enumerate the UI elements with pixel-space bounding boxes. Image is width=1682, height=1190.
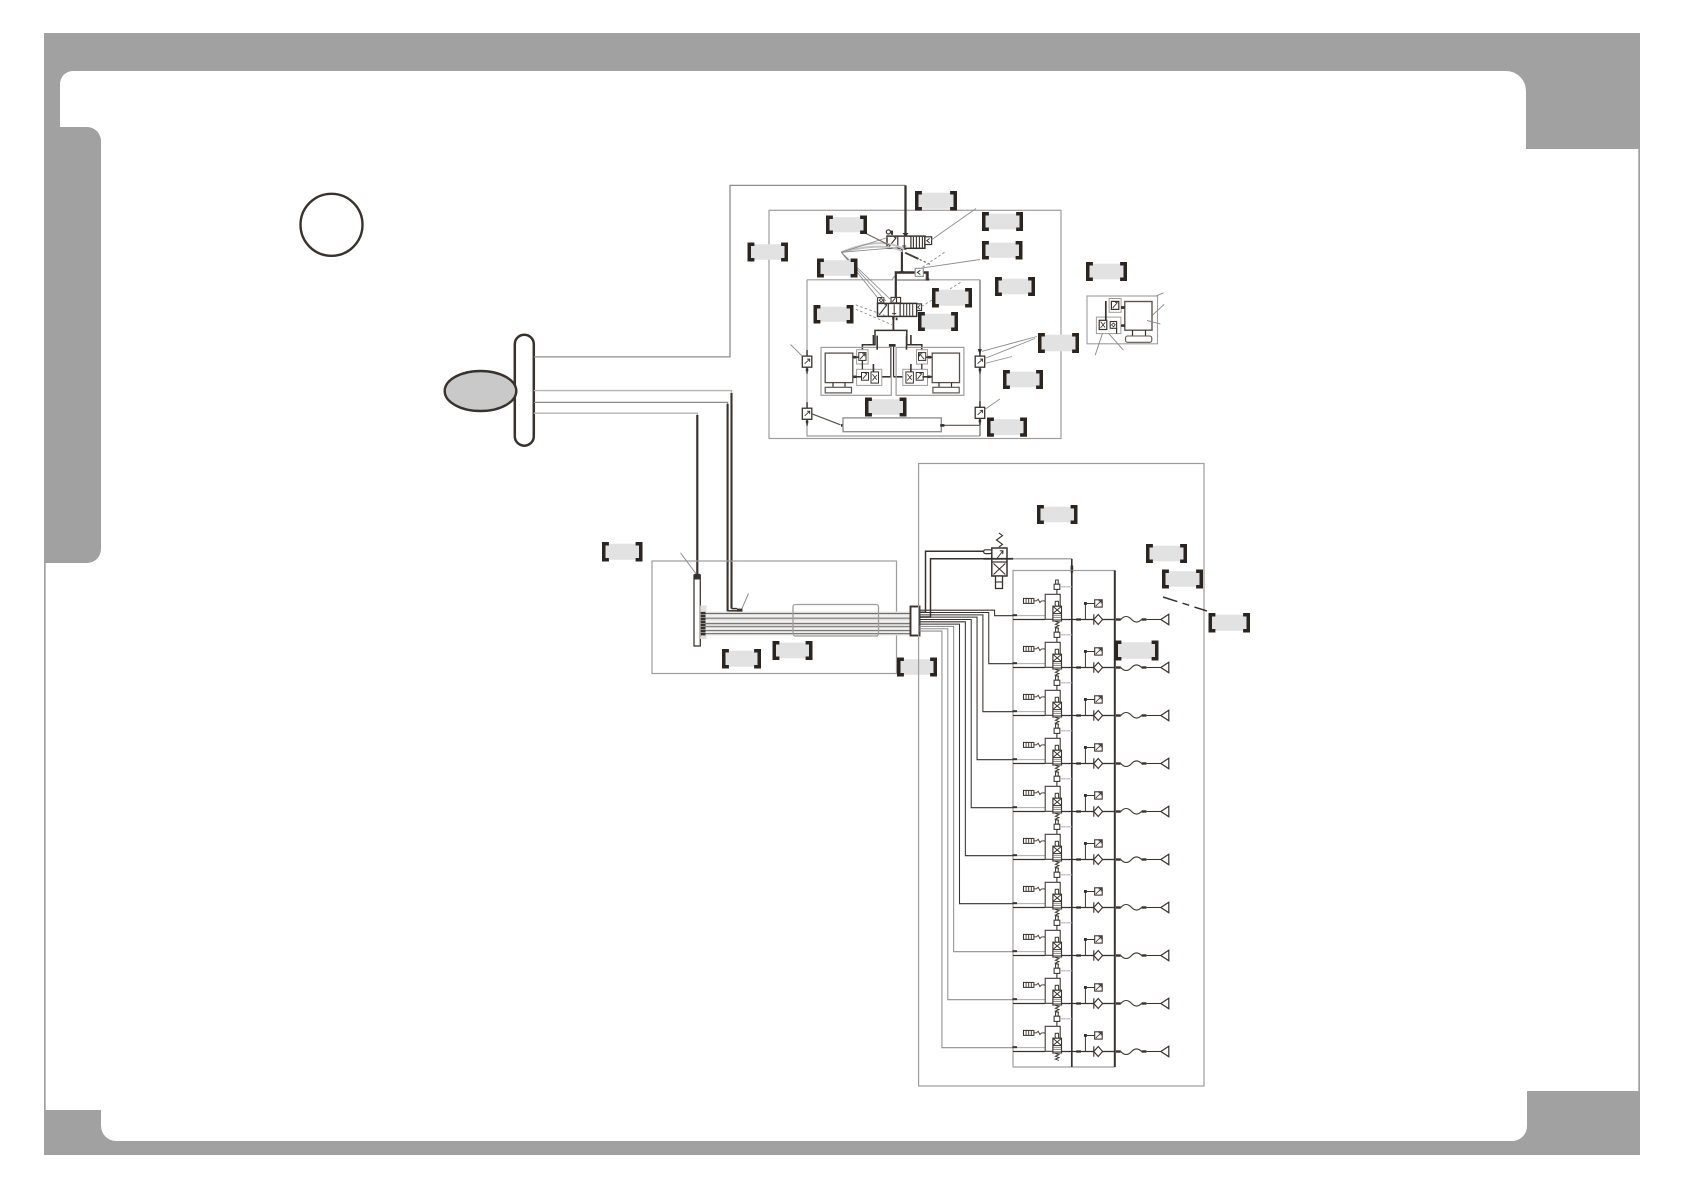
label: boom cylinders: [867, 399, 906, 415]
valve row 5 solenoid: [1024, 790, 1046, 795]
label: shuttle valve: [934, 290, 971, 306]
dashed leader to label: [1163, 597, 1207, 611]
valve row 5 unit frame: [1045, 786, 1060, 811]
valve row 4 unit frame: [1045, 738, 1060, 763]
left cylinder: [825, 353, 853, 383]
valve row 7 body neck: [1055, 889, 1058, 894]
valve row 5 out line 2: [1103, 811, 1115, 813]
valve row 8 entry lines: [1017, 951, 1045, 953]
valve row 9 solenoid: [1024, 982, 1046, 987]
valve row 7 check valve: [1093, 902, 1095, 912]
valve row 3 check valve: [1093, 710, 1095, 720]
valve row 2 body neck: [1055, 649, 1058, 654]
valve bank outer box: [919, 464, 1204, 1087]
valve row 10 body neck: [1055, 1033, 1058, 1038]
valve row 5 nozzle: [1161, 806, 1169, 817]
valve row 3 unit frame: [1045, 690, 1060, 715]
valve row 1 main body: [1053, 606, 1062, 621]
main control inner box: [807, 280, 980, 436]
valve row 7 nozzle: [1161, 902, 1169, 913]
valve row 8 unit frame: [1045, 930, 1060, 955]
valve row 5 pilot valve: [1056, 772, 1059, 776]
valve row 10 main body: [1053, 1038, 1062, 1053]
valve row 5 hose: [1121, 809, 1142, 815]
valve row 8 wire: [920, 626, 1014, 951]
valve row 6 unit frame: [1045, 834, 1060, 859]
page frame left border line: [44, 563, 46, 1110]
valve row 3 entry lines: [1017, 711, 1045, 713]
right cyl-check line: [926, 356, 933, 358]
valve row 5 spring: [1055, 813, 1059, 820]
valve row 9 wire: [920, 629, 1014, 1000]
pilot line 2: [534, 391, 732, 609]
valve row 1 solenoid: [1024, 598, 1046, 603]
manifold pressure bus: [1071, 571, 1073, 1068]
valve row 9 out line: [1062, 1003, 1094, 1005]
valve row 4 wire: [920, 617, 1014, 760]
valve row 6 out line 2: [1103, 859, 1115, 861]
label: manifold: [1039, 507, 1077, 523]
label: relief valve: [917, 193, 956, 209]
page frame left tab block: [44, 127, 101, 563]
valve row 6 out line: [1062, 859, 1094, 861]
valve row 4 orifice box: [1095, 744, 1103, 751]
valve row 5 wire: [920, 619, 1014, 807]
valve row 6 nozzle: [1161, 854, 1169, 865]
right valve link lines: [921, 364, 923, 369]
sub counterbalance box: [1096, 317, 1121, 334]
connector body: [694, 575, 700, 646]
valve row 5 entry tick: [1012, 806, 1017, 808]
valve row 10 entry lines: [1017, 1047, 1045, 1049]
valve row 9 check valve: [1093, 998, 1095, 1008]
port box left upper: [802, 350, 812, 374]
label: drain: [1005, 372, 1042, 388]
PV2 bottom ticks: [892, 316, 894, 319]
valve row 1 spring: [1055, 621, 1059, 628]
supply line valve to bus: [1013, 558, 1072, 560]
label: check valve: [997, 279, 1034, 295]
valve row 1 entry lines: [1017, 615, 1045, 617]
valve row 9 pilot valve: [1056, 964, 1059, 968]
left cylinder assembly box: [821, 347, 891, 395]
valve row 9 main body: [1053, 990, 1062, 1005]
callout PV1 up-right: [932, 209, 976, 240]
PV2 pilot boxes B C: [891, 297, 897, 303]
PV1 top port tick: [903, 233, 908, 236]
label: spray bar: [1210, 615, 1249, 631]
tank line left: [812, 414, 841, 425]
valve row 8 spring: [1055, 957, 1059, 964]
valve row 10 nozzle: [1161, 1046, 1169, 1057]
valve row 5 orifice box: [1095, 792, 1103, 799]
valve row 8 entry tick: [1012, 950, 1017, 952]
valve row 3 solenoid: [1024, 694, 1046, 699]
PV2 end box with check: [917, 304, 922, 311]
valve row 7 main body: [1053, 894, 1062, 909]
valve row 6 pilot junction: [1084, 844, 1086, 860]
left top feed lines: [872, 335, 874, 345]
right check valve box: [917, 350, 928, 364]
valve row 8 body neck: [1055, 937, 1058, 942]
valve row 1 unit frame: [1045, 594, 1060, 619]
valve row 1 wire: [920, 610, 1014, 616]
label: harness: [774, 643, 811, 659]
valve row 4 body neck: [1055, 745, 1058, 750]
valve row 4 hose: [1121, 761, 1142, 767]
connector pin shade band: [700, 606, 706, 640]
valve row 9 pilot junction: [1084, 988, 1086, 1004]
valve row 3 pilot valve: [1056, 676, 1059, 680]
Y split right branch: [893, 330, 921, 349]
label: harness clip: [724, 651, 760, 667]
PV1 end box with check: [925, 237, 932, 245]
manifold inner box: [1013, 571, 1115, 1068]
valve row 4 check valve: [1093, 758, 1095, 768]
valve row 7 entry tick: [1012, 902, 1017, 904]
right cylinder assembly box: [896, 347, 964, 395]
valve row 1 nozzle: [1161, 614, 1169, 625]
valve row 10 unit frame: [1045, 1026, 1060, 1051]
valve row 10 solenoid: [1024, 1030, 1046, 1035]
ribbon cable band: [706, 612, 911, 636]
valve row 4 nozzle: [1161, 758, 1169, 769]
valve row 8 hose: [1121, 953, 1142, 959]
valve row 10 spring: [1055, 1053, 1059, 1060]
valve row 5 out line: [1062, 811, 1094, 813]
valve row 2 pilot junction: [1084, 652, 1086, 668]
label: spool: [815, 307, 852, 322]
valve row 2 check valve: [1093, 662, 1095, 672]
valve row 9 body neck: [1055, 985, 1058, 990]
valve row 2 pilot valve: [1056, 628, 1059, 632]
valve row 7 out line 2: [1103, 907, 1115, 909]
callout fan lines: [841, 238, 887, 253]
valve row 2 entry lines: [1017, 663, 1045, 665]
valve row 9 hose: [1121, 1001, 1142, 1007]
line PV1 to block: [901, 248, 903, 272]
callout to ribbon tap: [742, 594, 749, 610]
valve row 7 entry lines: [1017, 903, 1045, 905]
valve row 4 pilot valve: [1056, 724, 1059, 728]
pilot line 4 (to connector): [534, 413, 698, 574]
left cyl-check line: [853, 356, 859, 358]
page frame top bar: [44, 33, 1640, 149]
valve row 9 unit frame: [1045, 978, 1060, 1003]
valve row 7 pilot valve: [1056, 868, 1059, 872]
valve row 8 out line 2: [1103, 955, 1115, 957]
valve row 10 check valve: [1093, 1046, 1095, 1056]
inner box top edge with hop: [807, 276, 980, 280]
valve row 5 check valve: [1093, 806, 1095, 816]
connection block body: [896, 273, 926, 280]
valve row 2 nozzle: [1161, 662, 1169, 673]
valve row 4 spring: [1055, 765, 1059, 772]
left valve link lines: [861, 360, 863, 369]
valve row 7 hose: [1121, 905, 1142, 911]
valve row 2 spring: [1055, 669, 1059, 676]
sub cylinder legs: [1132, 330, 1134, 336]
valve row 10 orifice box: [1095, 1032, 1103, 1039]
valve row 6 pilot valve: [1056, 820, 1059, 824]
valve row 8 nozzle: [1161, 950, 1169, 961]
label: pilot valve B: [819, 260, 857, 276]
supply line into main valve: [904, 185, 906, 236]
valve row 5 pilot junction: [1084, 796, 1086, 812]
valve row 6 solenoid: [1024, 838, 1046, 843]
valve row 10 hose: [1121, 1049, 1142, 1055]
PV2 pilot box A: [878, 298, 884, 303]
callout LB2 to PV1: [866, 234, 890, 246]
label: option kit: [1088, 264, 1126, 280]
valve row 3 wire: [920, 615, 1014, 712]
valve row 5 body neck: [1055, 793, 1058, 798]
valve row 1 orifice box: [1095, 600, 1103, 607]
reducing valve wires: [920, 551, 984, 612]
center pair lines down: [890, 346, 892, 377]
callout gray to check box: [922, 252, 945, 268]
valve row 6 entry tick: [1012, 854, 1017, 856]
sub cylinder: [1125, 302, 1152, 331]
valve row 2 unit frame: [1045, 642, 1060, 667]
tank: [843, 418, 941, 432]
port box right lower: [975, 401, 985, 425]
left cylinder base: [825, 387, 851, 393]
valve row 7 pilot junction: [1084, 892, 1086, 908]
valve row 10 entry tick: [1012, 1046, 1017, 1048]
valve row 10 out line 2: [1103, 1051, 1115, 1053]
valve row 1 entry tick: [1012, 614, 1017, 616]
valve row 3 orifice box: [1095, 696, 1103, 703]
ribbon wrap rounded box: [793, 605, 879, 637]
label: pilot valve A: [828, 217, 866, 232]
valve row 9 spring: [1055, 1005, 1059, 1012]
valve row 10 wire: [920, 631, 1014, 1048]
page frame bottom-right block: [1527, 1091, 1640, 1155]
valve row 6 spring: [1055, 861, 1059, 868]
left counterbalance box: [857, 369, 882, 385]
label: solenoid valve: [1116, 642, 1157, 659]
valve row 6 orifice box: [1095, 840, 1103, 847]
valve row 4 entry lines: [1017, 759, 1045, 761]
label: control unit: [604, 544, 642, 560]
valve row 2 orifice box: [1095, 648, 1103, 655]
valve row 1 check valve: [1093, 614, 1095, 624]
valve row 1 pilot junction: [1084, 604, 1086, 620]
tank line right: [941, 424, 980, 426]
valve row 2 out line 2: [1103, 667, 1115, 669]
valve row 9 orifice box: [1095, 984, 1103, 991]
valve row 2 out line: [1062, 667, 1094, 669]
PV1 bottom port tick: [903, 248, 906, 250]
right cylinder base: [933, 387, 959, 393]
valve row 3 main body: [1053, 702, 1062, 717]
valve row 2 wire: [920, 613, 1014, 664]
port box left lower: [802, 402, 812, 426]
page frame bottom-left block: [44, 1110, 116, 1141]
valve row 4 entry tick: [1012, 758, 1017, 760]
valve row 7 solenoid: [1024, 886, 1046, 891]
valve row 6 wire: [920, 622, 1014, 856]
label: tank: [989, 419, 1026, 435]
page frame top bar fill corner: [44, 33, 1640, 71]
valve row 9 entry lines: [1017, 999, 1045, 1001]
right counterbalance box: [903, 369, 928, 385]
left cylinder legs: [832, 383, 834, 388]
valve row 6 main body: [1053, 846, 1062, 861]
right top feed lines: [910, 335, 912, 345]
page frame left tab strip: [44, 33, 60, 133]
label: cylinder port: [1040, 335, 1078, 352]
valve row 1 out line 2: [1103, 619, 1115, 621]
proportional valve PV2 body: [878, 303, 917, 316]
valve row 2 solenoid: [1024, 646, 1046, 651]
pressure reducing valve: [984, 533, 1014, 589]
valve row 3 body neck: [1055, 697, 1058, 702]
callout PV2 up-right: [922, 282, 963, 307]
harness box: [652, 561, 897, 674]
valve row 1 out line: [1062, 619, 1094, 621]
label: junction: [899, 659, 936, 675]
wire PV2 down: [892, 316, 894, 330]
valve row 3 out line 2: [1103, 715, 1115, 717]
page frame right border line: [1638, 149, 1640, 1091]
label: hose kit: [1164, 571, 1202, 587]
connector tip: [694, 574, 700, 580]
sub cylinder base: [1126, 336, 1152, 342]
callout check box to LB5: [923, 260, 980, 268]
port box right upper: [975, 350, 985, 374]
valve row 7 orifice box: [1095, 888, 1103, 895]
valve row 8 pilot valve: [1056, 916, 1059, 920]
valve row 6 entry lines: [1017, 855, 1045, 857]
leader to right port: [982, 337, 1037, 352]
valve row 8 orifice box: [1095, 936, 1103, 943]
left check valve box: [857, 350, 869, 364]
sub-schematic box: [1087, 296, 1158, 344]
PV1 pilot cap circle: [886, 230, 890, 234]
ribbon terminator block: [911, 607, 920, 636]
valve row 1 hose: [1121, 617, 1142, 623]
proportional valve PV1 body: [887, 236, 925, 248]
valve row 3 entry tick: [1012, 710, 1017, 712]
valve row 1 pilot valve: [1056, 580, 1059, 584]
valve row 4 pilot junction: [1084, 748, 1086, 764]
right cylinder: [932, 353, 959, 383]
label: port T: [984, 243, 1022, 258]
sub valve links: [1105, 301, 1107, 320]
ribbon cable lines: [706, 614, 911, 634]
valve row 5 main body: [1053, 798, 1062, 813]
valve row 3 nozzle: [1161, 710, 1169, 721]
valve row 3 pilot junction: [1084, 700, 1086, 716]
detail circle marker: [301, 194, 363, 256]
connector pins: [701, 612, 706, 615]
center junction blob: [889, 344, 896, 347]
valve row 6 check valve: [1093, 854, 1095, 864]
valve row 8 solenoid: [1024, 934, 1046, 939]
valve row 7 spring: [1055, 909, 1059, 916]
ribbon tap square: [737, 609, 743, 614]
valve row 10 out line: [1062, 1051, 1094, 1053]
block top port tick: [900, 271, 904, 273]
valve row 10 pilot junction: [1084, 1036, 1086, 1052]
callout to connector: [681, 553, 696, 574]
pump ellipse: [445, 371, 517, 411]
valve row 8 check valve: [1093, 950, 1095, 960]
sub check valve box: [1109, 299, 1121, 313]
valve row 4 main body: [1053, 750, 1062, 765]
valve row 3 out line: [1062, 715, 1094, 717]
valve row 4 out line 2: [1103, 763, 1115, 765]
pilot line 1 (to top schematic): [534, 185, 906, 357]
block heavy rail: [896, 272, 928, 303]
main control outer box: [769, 210, 1061, 438]
ribbon tap horizontals: [728, 610, 738, 612]
valve row 5 entry lines: [1017, 807, 1045, 809]
valve row 8 main body: [1053, 942, 1062, 957]
valve row 3 hose: [1121, 713, 1142, 719]
valve row 6 body neck: [1055, 841, 1058, 846]
callout fan curves light: [841, 243, 904, 252]
pilot line 3: [534, 402, 728, 611]
valve row 7 unit frame: [1045, 882, 1060, 907]
valve row 10 pilot valve: [1056, 1012, 1059, 1016]
valve row 1 body neck: [1055, 601, 1058, 606]
callout LB9 diagonals: [856, 305, 888, 317]
label: port P: [984, 214, 1022, 230]
manifold right edge heavy: [1114, 571, 1116, 1068]
valve row 3 spring: [1055, 717, 1059, 724]
Y split left branch: [862, 330, 893, 349]
valve row 2 entry tick: [1012, 662, 1017, 664]
block check box: [915, 268, 923, 276]
valve row 4 out line: [1062, 763, 1094, 765]
valve row 9 entry tick: [1012, 998, 1017, 1000]
handle capsule: [515, 335, 534, 446]
port box callouts: [791, 345, 803, 357]
sub callout lines: [1153, 304, 1165, 315]
valve row 2 hose: [1121, 665, 1142, 671]
valve row 9 nozzle: [1161, 998, 1169, 1009]
valve row 4 solenoid: [1024, 742, 1046, 747]
page frame bottom bar: [101, 1141, 1527, 1155]
valve row 7 out line: [1062, 907, 1094, 909]
label: hose A: [749, 244, 787, 260]
valve row 8 pilot junction: [1084, 940, 1086, 956]
valve row 8 out line: [1062, 955, 1094, 957]
valve row 9 out line 2: [1103, 1003, 1115, 1005]
right cylinder legs: [938, 383, 940, 388]
callout dark to check box: [905, 253, 918, 259]
label: nozzle line: [1148, 546, 1186, 562]
valve row 2 main body: [1053, 654, 1062, 669]
valve row 7 wire: [920, 624, 1014, 904]
label: orifice: [920, 314, 957, 330]
valve row 6 hose: [1121, 857, 1142, 863]
